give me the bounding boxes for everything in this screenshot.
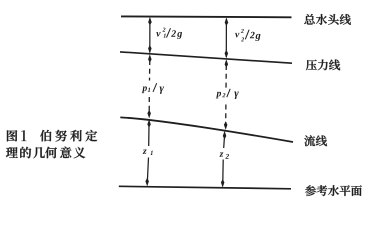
label p1/gamma xyxy=(142,83,164,94)
label 流线 (streamline) xyxy=(304,135,327,146)
streamline (流线) xyxy=(120,117,293,142)
label v2^2/2g xyxy=(235,29,260,41)
pressure line (压力线) xyxy=(120,52,292,63)
label 总水头线 (total head line) xyxy=(304,14,351,25)
label z1 xyxy=(143,149,153,155)
dimension arrow v2^2/2g (total head line to pressure line) xyxy=(225,17,229,58)
dimension arrow v1^2/2g (total head line to pressure line) xyxy=(148,17,152,54)
caption line 1: 图 1 伯努利定 xyxy=(7,130,97,142)
caption line 2: 理的几何意义 xyxy=(6,147,85,159)
label 压力线 (pressure line) xyxy=(306,59,340,70)
dimension arrow p2/gamma, dashed (pressure line to streamline) xyxy=(224,59,228,130)
total head line (总水头线) xyxy=(121,15,292,18)
label p2/gamma xyxy=(216,89,239,99)
dimension arrow p1/gamma, dashed (pressure line to streamline) xyxy=(147,54,151,118)
caption digit 1 xyxy=(21,130,26,141)
reference horizontal plane (参考水平面) xyxy=(119,186,291,189)
dimension arrow z1 (streamline to reference plane) xyxy=(145,119,150,186)
label v1^2/2g xyxy=(156,28,182,39)
label 参考水平面 (reference plane) xyxy=(305,185,362,196)
label z2 xyxy=(219,152,229,158)
dimension arrow z2 (streamline to reference plane) xyxy=(221,131,226,188)
